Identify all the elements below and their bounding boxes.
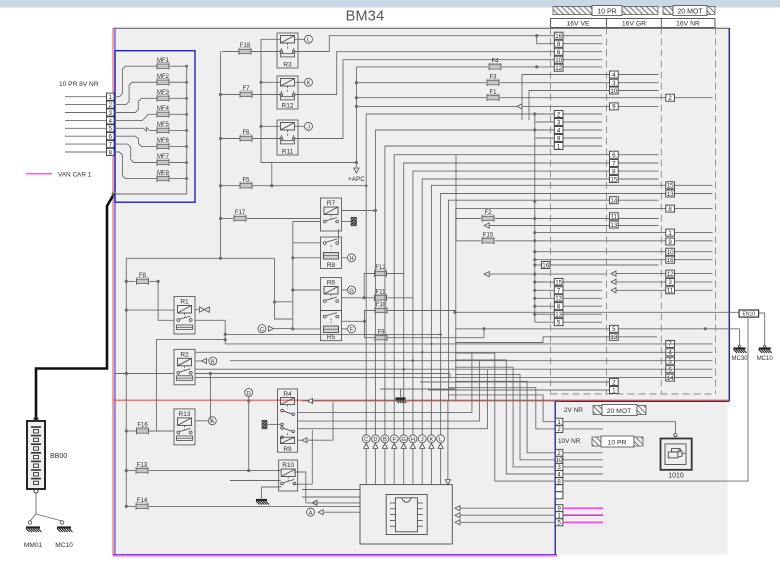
left fuse bus bbox=[219, 52, 222, 259]
svg-text:16: 16 bbox=[542, 262, 549, 269]
svg-text:F2: F2 bbox=[484, 210, 492, 216]
wire R12 coil to K bbox=[295, 81, 305, 83]
wire fan bundle upper bbox=[366, 114, 712, 435]
svg-text:12: 12 bbox=[555, 296, 562, 303]
wire F7 left bbox=[222, 94, 240, 96]
svg-text:A: A bbox=[210, 419, 214, 425]
svg-text:2: 2 bbox=[557, 426, 561, 433]
svg-text:3: 3 bbox=[668, 279, 672, 286]
svg-text:F7: F7 bbox=[242, 86, 250, 92]
wires GR 2 1 bottom bbox=[420, 382, 610, 390]
fuse F16 bbox=[137, 423, 149, 435]
svg-text:C: C bbox=[260, 327, 264, 333]
fuse F15 bbox=[456, 155, 713, 245]
fuse F4 bbox=[356, 59, 602, 71]
wire MC30 up bbox=[455, 327, 740, 330]
relay R1 bbox=[174, 297, 195, 335]
svg-text:B: B bbox=[211, 359, 215, 365]
connector 10PR pins 1-8 bbox=[65, 93, 114, 156]
svg-text:13: 13 bbox=[610, 222, 617, 229]
svg-text:1: 1 bbox=[668, 230, 672, 237]
wire F9 up bbox=[482, 327, 485, 338]
circled J bbox=[305, 122, 313, 130]
svg-text:16V GR: 16V GR bbox=[622, 21, 646, 28]
svg-text:MF3: MF3 bbox=[157, 90, 170, 96]
bottom connector pin boxes bbox=[555, 418, 563, 526]
svg-text:H: H bbox=[349, 256, 353, 262]
bottom box purple border bbox=[113, 554, 557, 556]
svg-text:F16: F16 bbox=[137, 423, 148, 429]
svg-text:5: 5 bbox=[557, 520, 561, 527]
svg-text:15: 15 bbox=[610, 176, 617, 183]
svg-text:R3: R3 bbox=[283, 61, 292, 68]
left lower bus bbox=[125, 258, 128, 508]
svg-text:+APC: +APC bbox=[348, 176, 365, 183]
svg-text:1010: 1010 bbox=[668, 473, 684, 480]
main panel left border blue bbox=[114, 28, 116, 556]
relay block R6 bbox=[321, 278, 342, 311]
wire R12 contact riser to pin 6 bbox=[294, 52, 602, 95]
fuse F5 bbox=[240, 177, 252, 189]
svg-text:F: F bbox=[392, 437, 396, 443]
svg-text:F13: F13 bbox=[137, 462, 148, 468]
circled F bbox=[348, 325, 356, 333]
red separator line bbox=[113, 399, 729, 401]
fuse F8 bbox=[137, 273, 149, 285]
svg-text:MF4: MF4 bbox=[157, 106, 170, 112]
wires NR bottom group rows bbox=[195, 343, 713, 378]
svg-text:F18: F18 bbox=[240, 43, 251, 49]
IC chip bbox=[390, 498, 423, 532]
svg-text:R1: R1 bbox=[180, 299, 189, 306]
svg-text:15: 15 bbox=[667, 183, 674, 190]
wire GR13 lower bbox=[455, 337, 657, 343]
magenta wire 9 bbox=[563, 507, 603, 509]
wire 1010 feed bbox=[563, 422, 677, 437]
svg-text:2: 2 bbox=[668, 95, 672, 102]
fuse F6 bbox=[240, 130, 252, 142]
title BM34 bbox=[346, 9, 385, 25]
svg-text:7: 7 bbox=[668, 341, 672, 348]
relay R11 bbox=[277, 120, 298, 155]
svg-text:10 PR: 10 PR bbox=[597, 8, 616, 15]
window top strip bbox=[0, 0, 780, 8]
svg-text:13: 13 bbox=[610, 334, 617, 341]
main panel left border red bbox=[112, 28, 114, 556]
svg-text:MF8: MF8 bbox=[157, 170, 170, 176]
wire F13 bbox=[126, 470, 280, 472]
svg-text:9: 9 bbox=[557, 135, 561, 142]
arrow rows NR 12 3 11 bbox=[611, 271, 713, 293]
svg-text:J: J bbox=[307, 125, 310, 131]
svg-text:1: 1 bbox=[612, 387, 616, 394]
circled K bbox=[305, 78, 313, 86]
wire R11 coil to J bbox=[295, 125, 305, 127]
wire bus to R6 coil bbox=[293, 289, 321, 291]
arrow and circled B bbox=[195, 357, 217, 365]
ECU input arrow row bbox=[294, 472, 361, 506]
svg-text:F8: F8 bbox=[139, 273, 147, 279]
svg-text:5: 5 bbox=[668, 358, 672, 365]
dashed column line 2 bbox=[606, 28, 608, 395]
wire NR 8 row bbox=[0, 0, 1, 1]
svg-text:8: 8 bbox=[612, 168, 616, 175]
svg-text:EN10: EN10 bbox=[743, 312, 756, 318]
svg-text:MF7: MF7 bbox=[157, 154, 170, 160]
bottom-right box left border blue bbox=[554, 401, 556, 555]
svg-text:G: G bbox=[349, 288, 353, 294]
wire F18 to R3 bbox=[251, 51, 281, 53]
circled A right of R13 bbox=[195, 417, 216, 425]
svg-text:6: 6 bbox=[557, 49, 561, 56]
svg-text:MF6: MF6 bbox=[157, 138, 170, 144]
valve symbol at R1 bbox=[200, 307, 210, 312]
svg-text:8: 8 bbox=[668, 206, 672, 213]
relay aux bus bbox=[259, 39, 356, 162]
wire R6 to G bbox=[342, 289, 348, 291]
wire F17 to R7 bbox=[247, 218, 321, 220]
label 10V NR bbox=[558, 438, 581, 445]
svg-text:H: H bbox=[411, 437, 415, 443]
svg-text:4: 4 bbox=[557, 127, 561, 134]
svg-text:16V NR: 16V NR bbox=[676, 21, 700, 28]
svg-text:F6: F6 bbox=[242, 130, 250, 136]
dashed column line 3 bbox=[660, 28, 662, 395]
wires to NR 1 10 16 bbox=[533, 231, 712, 261]
circled G bbox=[348, 286, 356, 294]
wire bus to R8 contacts bbox=[293, 242, 322, 244]
wires GR 11 13 bbox=[0, 0, 1, 1]
wire F17 left bbox=[222, 218, 233, 220]
wire GR pin 4 row bbox=[522, 75, 659, 121]
circled D bbox=[245, 389, 253, 473]
dashed column line 4 bbox=[715, 28, 717, 395]
+APC arrow bbox=[348, 168, 365, 183]
magenta wire 1 bbox=[563, 514, 603, 516]
wire F14 bbox=[126, 505, 360, 507]
svg-text:MM01: MM01 bbox=[24, 542, 43, 549]
wires pins to MF fuses bbox=[114, 66, 157, 178]
ground MC10 left bbox=[55, 528, 73, 550]
right mid bus bbox=[533, 114, 536, 322]
svg-text:7: 7 bbox=[557, 288, 561, 295]
connector header 16V VE / 16V GR / 16V NR bbox=[551, 19, 716, 28]
svg-text:10 PR 8V NR: 10 PR 8V NR bbox=[59, 81, 99, 88]
pin boxes column 16V NR bbox=[666, 94, 675, 382]
svg-text:2: 2 bbox=[612, 379, 616, 386]
wire to APC bbox=[355, 67, 358, 167]
fuse F13 bbox=[136, 462, 148, 474]
fuse F12 bbox=[375, 265, 387, 277]
svg-text:3: 3 bbox=[612, 80, 616, 87]
wire F14 riser bbox=[0, 0, 1, 1]
svg-text:F17: F17 bbox=[235, 210, 246, 216]
battery cable bbox=[36, 194, 114, 420]
svg-text:K: K bbox=[307, 81, 311, 87]
svg-text:F1: F1 bbox=[489, 89, 497, 95]
circled L bbox=[305, 35, 313, 43]
wire EN10 right to MC10 bbox=[759, 313, 765, 345]
wire R11 contact riser to pin 10 bbox=[294, 60, 602, 139]
svg-text:16: 16 bbox=[667, 257, 674, 264]
wire F12 bbox=[364, 274, 404, 298]
wire R3 coil to L bbox=[295, 38, 305, 40]
svg-text:20 MOT: 20 MOT bbox=[677, 8, 703, 15]
svg-text:F14: F14 bbox=[137, 498, 148, 504]
relay block R8 bbox=[321, 229, 342, 269]
magenta wire 5 bbox=[563, 521, 603, 523]
svg-text:L: L bbox=[439, 437, 442, 443]
fuse F17 bbox=[234, 210, 246, 222]
hatched band 10 PR bbox=[553, 6, 658, 16]
wire F7 to R12 bbox=[252, 94, 281, 96]
svg-text:4: 4 bbox=[612, 72, 616, 79]
wire F10 bbox=[365, 311, 456, 322]
svg-text:2: 2 bbox=[557, 111, 561, 118]
label 2V NR bbox=[564, 407, 583, 414]
dashed column line 1 bbox=[550, 28, 552, 395]
fuse F9 bbox=[375, 329, 387, 341]
svg-text:1: 1 bbox=[557, 143, 561, 150]
svg-text:D: D bbox=[373, 437, 377, 443]
wire F8 riser bbox=[156, 281, 226, 431]
relay block R7 bbox=[321, 198, 342, 231]
relay R2 bbox=[174, 349, 195, 385]
wire F5 left bbox=[222, 185, 240, 187]
svg-text:J: J bbox=[421, 437, 424, 443]
wire F8 bbox=[125, 280, 160, 283]
wire bus to R7 row bbox=[293, 221, 321, 223]
wires ECU to bottom pins bbox=[455, 506, 555, 525]
battery bottom wire bbox=[35, 493, 37, 514]
main panel top highlight bbox=[113, 26, 730, 28]
svg-text:R11: R11 bbox=[282, 148, 294, 155]
wire fan to bottom-right pins bbox=[448, 353, 555, 481]
wire R8 to H bbox=[342, 257, 348, 259]
relay left bus bbox=[291, 222, 294, 331]
wire F6 left bbox=[222, 138, 240, 140]
svg-text:C: C bbox=[364, 437, 368, 443]
relay R3 bbox=[277, 33, 298, 68]
wire F11 bbox=[342, 296, 413, 299]
wires R4 R9 outputs rising bbox=[297, 352, 487, 429]
fuses MF1-MF8 bbox=[157, 58, 170, 182]
svg-text:B: B bbox=[383, 437, 387, 443]
svg-text:10: 10 bbox=[555, 57, 562, 64]
relay R12 bbox=[277, 76, 298, 109]
svg-text:A: A bbox=[309, 511, 313, 517]
svg-text:15: 15 bbox=[555, 279, 562, 286]
svg-text:13: 13 bbox=[667, 191, 674, 198]
svg-text:MF5: MF5 bbox=[157, 122, 170, 128]
main panel top border bbox=[113, 27, 730, 29]
wire bracket VE pin 3 bbox=[533, 112, 602, 122]
fuse F14 bbox=[136, 498, 148, 510]
svg-text:MC10: MC10 bbox=[55, 542, 73, 549]
cable junction circle bbox=[112, 192, 116, 196]
wire row 334 bbox=[225, 333, 442, 336]
svg-text:R9: R9 bbox=[283, 446, 292, 453]
svg-text:2V NR: 2V NR bbox=[564, 407, 583, 414]
svg-text:R7: R7 bbox=[327, 200, 336, 207]
relay R10 bbox=[279, 460, 298, 491]
ground MC10 right bbox=[757, 345, 774, 362]
svg-text:12: 12 bbox=[555, 65, 562, 72]
relay R13 bbox=[174, 409, 195, 445]
svg-text:G: G bbox=[402, 437, 406, 443]
wire R5 contact row bbox=[342, 320, 367, 323]
label 10 PR 8VNR bbox=[59, 81, 99, 88]
svg-text:F5: F5 bbox=[242, 177, 250, 183]
wire into ECU top with arrow bbox=[445, 400, 450, 484]
fuse F10 bbox=[375, 302, 387, 314]
circled H bbox=[348, 254, 356, 262]
wire bus to R5 bar bbox=[293, 328, 321, 330]
svg-text:BM34: BM34 bbox=[346, 9, 385, 25]
fuse F7 bbox=[240, 86, 252, 98]
fuse F2 bbox=[456, 210, 659, 222]
battery ground split bbox=[28, 514, 64, 524]
arrow into R9 bbox=[298, 402, 334, 443]
wire GR pin 3 row bbox=[0, 0, 1, 1]
svg-text:13: 13 bbox=[555, 312, 562, 319]
circled A arrow bottom bbox=[307, 508, 360, 516]
wire F18 left bbox=[222, 51, 239, 53]
svg-text:5: 5 bbox=[557, 320, 561, 327]
fuse box BM34 blue outline bbox=[115, 51, 195, 203]
battery BB00 bbox=[27, 417, 67, 493]
calculator BM34 main panel bbox=[114, 28, 730, 555]
pin boxes column 16V GR bbox=[610, 71, 619, 394]
arrow row 9GR bbox=[355, 104, 659, 109]
component 1010 bbox=[661, 439, 692, 480]
svg-text:6: 6 bbox=[612, 152, 616, 159]
wire R1 coil right bbox=[195, 309, 199, 311]
connector EN10 bbox=[739, 310, 759, 318]
pin boxes column 16V VE bbox=[554, 32, 563, 326]
circled letters C D B F G H J K L with arrows bbox=[362, 435, 444, 485]
svg-text:10: 10 bbox=[610, 88, 617, 95]
MF bus wire bbox=[115, 65, 189, 194]
ground MC30 bbox=[731, 329, 748, 362]
svg-text:9: 9 bbox=[668, 239, 672, 246]
hatch connector at R4 bbox=[262, 420, 281, 429]
svg-text:8: 8 bbox=[557, 304, 561, 311]
wire GR pin 10 row bbox=[529, 91, 659, 121]
ECU outer box bbox=[360, 485, 452, 544]
wire R2 row long bbox=[114, 372, 450, 421]
wire bus to R8 bar bbox=[293, 257, 322, 259]
svg-text:10 PR: 10 PR bbox=[608, 439, 627, 446]
wire top long bbox=[126, 257, 292, 319]
svg-text:F15: F15 bbox=[483, 233, 494, 239]
svg-text:14: 14 bbox=[667, 375, 674, 382]
svg-text:8: 8 bbox=[557, 41, 561, 48]
svg-text:14: 14 bbox=[610, 198, 617, 205]
fuse F18 bbox=[239, 43, 251, 55]
fuse F3 bbox=[355, 74, 659, 86]
svg-text:R13: R13 bbox=[179, 411, 191, 418]
wire to EN10 bbox=[453, 311, 740, 314]
ECU left stubs bbox=[302, 490, 360, 498]
svg-text:10V NR: 10V NR bbox=[558, 438, 581, 445]
wire F6 to R11 bbox=[252, 138, 281, 140]
svg-text:3: 3 bbox=[557, 119, 561, 126]
svg-text:K: K bbox=[430, 437, 434, 443]
svg-text:R2: R2 bbox=[180, 351, 189, 358]
wire F5 right bbox=[252, 163, 368, 188]
svg-text:16: 16 bbox=[555, 33, 562, 40]
wires 10VNR right stubs bbox=[563, 453, 603, 481]
svg-text:L: L bbox=[307, 38, 310, 44]
wire branch to pin 8 bbox=[537, 36, 602, 44]
arrow row mid2 bbox=[484, 272, 607, 277]
main panel right border blue bbox=[728, 28, 730, 401]
hatched band 20 MOT bbox=[663, 6, 715, 16]
legend VAN CAR 1 bbox=[26, 171, 92, 178]
svg-text:11: 11 bbox=[667, 288, 674, 295]
svg-text:20 MOT: 20 MOT bbox=[607, 408, 632, 415]
svg-text:7: 7 bbox=[612, 160, 616, 167]
svg-text:VAN CAR 1: VAN CAR 1 bbox=[58, 171, 92, 178]
svg-text:R10: R10 bbox=[282, 462, 294, 469]
ground below wire bbox=[396, 389, 407, 403]
svg-text:11: 11 bbox=[611, 214, 618, 221]
relay block R5 bbox=[321, 311, 342, 342]
svg-text:R12: R12 bbox=[282, 102, 294, 109]
svg-text:F: F bbox=[350, 327, 354, 333]
wire R2 up bbox=[0, 0, 1, 1]
wire R3 contact riser to pin 16 bbox=[294, 34, 602, 51]
svg-text:9: 9 bbox=[612, 104, 616, 111]
svg-text:D: D bbox=[247, 391, 251, 397]
svg-text:10: 10 bbox=[667, 249, 674, 256]
ground at R10 bbox=[256, 487, 282, 505]
svg-text:5: 5 bbox=[612, 326, 616, 333]
bottom box pink border bbox=[113, 555, 557, 557]
fuse F11 bbox=[375, 290, 387, 302]
dashed box bottom edge bbox=[551, 393, 716, 395]
wire bracket VE pin 9 bbox=[533, 128, 602, 138]
relay R4 R9 block bbox=[278, 389, 298, 453]
svg-text:MC10: MC10 bbox=[757, 356, 774, 362]
ground MM01 bbox=[24, 528, 43, 550]
wire at 389 bbox=[302, 389, 560, 404]
wire F16 bbox=[125, 429, 174, 432]
wire R5 to F bbox=[342, 328, 348, 330]
svg-text:F4: F4 bbox=[491, 59, 499, 65]
svg-text:R4: R4 bbox=[283, 391, 292, 398]
circled C with arrow bbox=[258, 325, 293, 333]
wire F9 bbox=[365, 321, 485, 337]
wire F13 riser bbox=[230, 430, 312, 484]
svg-text:R6: R6 bbox=[327, 280, 336, 287]
svg-text:F3: F3 bbox=[489, 74, 497, 80]
svg-text:MC30: MC30 bbox=[731, 356, 748, 362]
wire 2VNR-2 right bbox=[563, 428, 603, 430]
hatched band 10 PR bottom bbox=[592, 436, 643, 447]
wires to VE lower pins bbox=[535, 282, 602, 322]
svg-text:MF1: MF1 bbox=[157, 58, 170, 64]
hatched band 20 MOT bottom bbox=[593, 405, 646, 416]
hatch connector at R7 bbox=[342, 209, 378, 226]
svg-text:MF2: MF2 bbox=[157, 74, 170, 80]
wire R1 left bbox=[126, 309, 174, 311]
svg-text:R5: R5 bbox=[327, 334, 336, 341]
svg-text:R8: R8 bbox=[327, 262, 336, 269]
ECU inner box bbox=[386, 495, 427, 535]
svg-text:6: 6 bbox=[668, 367, 672, 374]
